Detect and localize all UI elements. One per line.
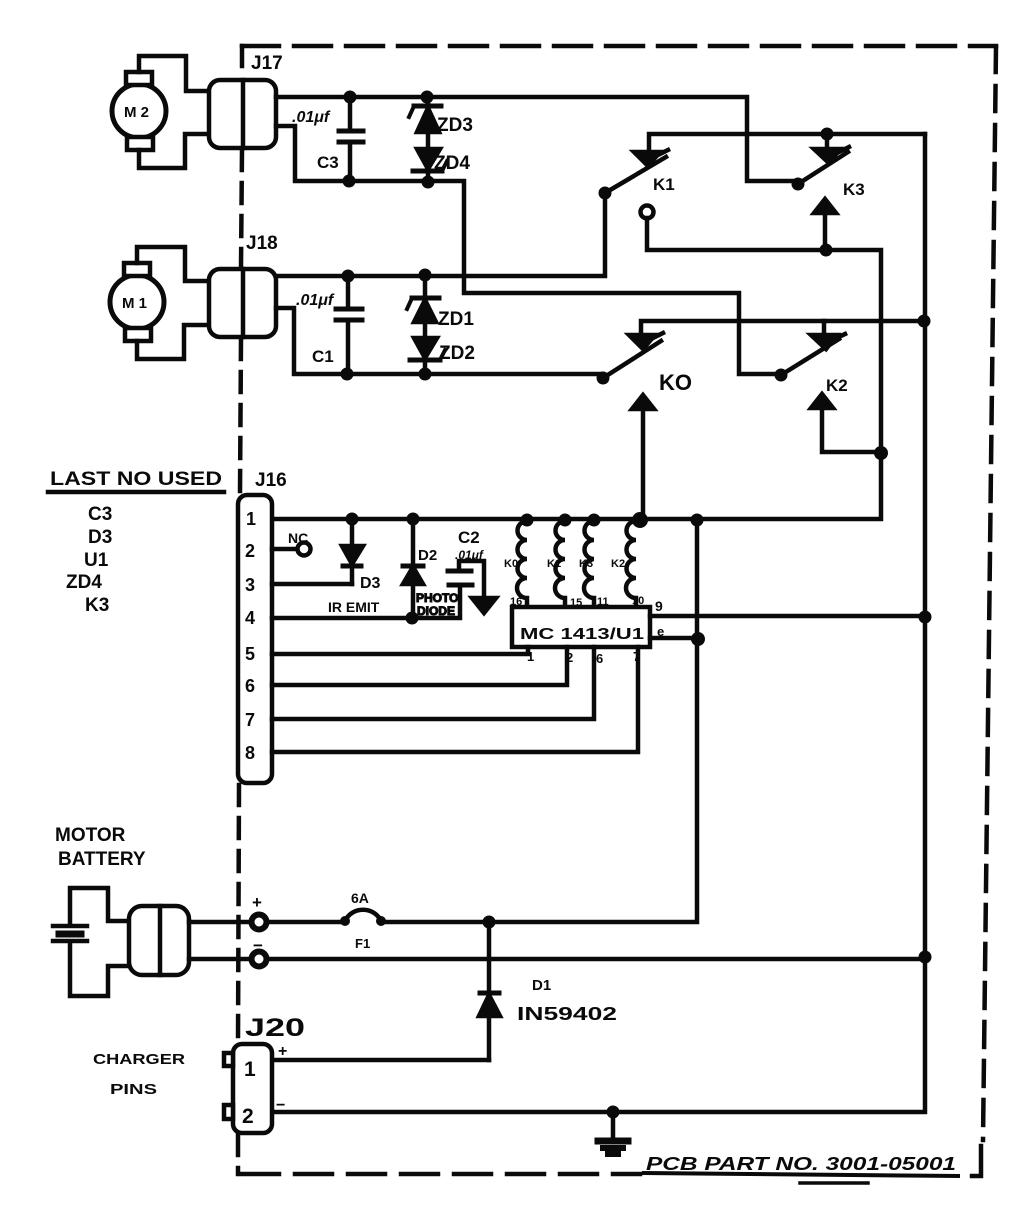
svg-text:e: e <box>657 624 664 639</box>
switch K0 NO arrow contact <box>632 395 654 409</box>
svg-text:.01μf: .01μf <box>296 292 335 309</box>
motor M2 bottom brush cap <box>127 137 153 150</box>
svg-text:J17: J17 <box>251 53 283 74</box>
wire J16 pin3 to D3 <box>272 582 352 587</box>
svg-text:5: 5 <box>245 644 255 664</box>
svg-text:2: 2 <box>566 650 573 665</box>
switch K1 NC circle contact <box>641 206 654 219</box>
svg-text:9: 9 <box>655 598 663 614</box>
wire connector to terminals <box>189 920 251 925</box>
motor M1 bottom brush cap <box>125 328 151 341</box>
wire K0/K2 common top <box>641 321 924 335</box>
ground arrow at C2 <box>472 598 496 613</box>
wire U1 pin8 to vertical <box>650 636 697 641</box>
PCB dashed border right <box>983 47 996 1140</box>
svg-text:1: 1 <box>244 1058 256 1081</box>
svg-text:11: 11 <box>597 596 609 608</box>
svg-text:DIODE: DIODE <box>417 604 455 618</box>
svg-text:MOTOR: MOTOR <box>55 825 126 846</box>
switch K0 fixed contact arrow <box>629 335 655 349</box>
diode D3 IR emitter <box>350 519 355 545</box>
IC U1 MC1413 <box>512 607 650 647</box>
wire M1 top to J18 <box>137 247 209 281</box>
svg-text:.01μf: .01μf <box>455 548 484 562</box>
connector J18 <box>209 269 276 337</box>
wire K0 NO to coil rail <box>641 409 646 518</box>
svg-text:U1: U1 <box>84 550 109 571</box>
svg-text:2: 2 <box>242 1105 254 1128</box>
switch K1 fixed contact arrow <box>634 152 660 166</box>
svg-text:3: 3 <box>245 575 255 595</box>
battery cell plates <box>53 924 87 929</box>
diode D1 <box>487 922 492 992</box>
wire coil rail vertical to battery plus rail <box>381 520 697 922</box>
plus terminal <box>252 915 267 930</box>
svg-text:KO: KO <box>659 370 692 395</box>
ground symbol <box>611 1112 616 1138</box>
capacitor C1 <box>346 276 351 307</box>
zener ZD1 <box>423 275 428 298</box>
junction dots <box>344 91 357 104</box>
svg-text:10: 10 <box>632 595 644 607</box>
svg-text:J18: J18 <box>246 233 278 254</box>
svg-text:IR EMIT: IR EMIT <box>328 599 380 615</box>
svg-text:8: 8 <box>245 743 255 763</box>
relay coil K2 <box>626 521 636 607</box>
svg-text:C3: C3 <box>88 504 112 525</box>
switch K3 NO arrow contact <box>814 199 836 213</box>
switch K3 fixed stub <box>825 134 830 148</box>
wire U1 pin9 to right vertical <box>650 614 925 619</box>
wire J17 pin B to ZD4/C3 bottom rail and down to K2 pole <box>276 126 778 374</box>
relay coil K1 <box>555 521 565 607</box>
wire main right vertical to bottom rail <box>272 134 925 1112</box>
svg-text:ZD3: ZD3 <box>437 115 473 136</box>
svg-text:D3: D3 <box>88 527 112 548</box>
connector J17 <box>209 80 276 148</box>
svg-text:K2: K2 <box>826 376 848 395</box>
connector J20 <box>233 1044 272 1133</box>
svg-text:C2: C2 <box>458 528 480 547</box>
NC open circle <box>298 543 311 556</box>
relay coil K3 <box>584 521 594 607</box>
wire M2 top to J17 <box>139 56 209 91</box>
wire plus terminal to fuse <box>267 920 345 925</box>
svg-text:+: + <box>278 1043 287 1060</box>
wire K1 NC to K3 NO, down right side to coil rail <box>272 218 881 519</box>
svg-text:K0: K0 <box>504 558 518 570</box>
fuse F1 <box>345 910 381 921</box>
wire minus terminal rail <box>267 957 925 962</box>
capacitor C3 <box>348 97 353 129</box>
wire battery minus to connector <box>70 943 129 996</box>
svg-text:J20: J20 <box>245 1014 305 1042</box>
wire J20 pin1 to D1 <box>272 1058 489 1063</box>
PCB dashed border bottom-right corner <box>972 1146 981 1176</box>
svg-text:−: − <box>253 936 263 955</box>
svg-text:ZD1: ZD1 <box>438 309 474 330</box>
wire J18 pin B rail to K0 pole <box>276 308 600 374</box>
svg-text:F1: F1 <box>355 936 370 951</box>
svg-text:MC 1413/U1: MC 1413/U1 <box>520 626 644 643</box>
switch K2 arm <box>781 339 839 375</box>
svg-text:D3: D3 <box>360 575 381 592</box>
svg-text:C1: C1 <box>312 347 334 366</box>
zener ZD4 <box>417 149 440 169</box>
wire M2 bottom to J17 <box>139 134 209 168</box>
switch K2 NO arrow contact <box>811 394 833 408</box>
svg-text:LAST NO USED: LAST NO USED <box>50 469 222 490</box>
wire K1/K3 common top <box>649 134 925 152</box>
switch K2 fixed contact arrow <box>811 335 837 349</box>
svg-text:2: 2 <box>245 541 255 561</box>
switch K2 fixed stub <box>822 321 827 334</box>
svg-text:PCB PART NO. 3001-05001: PCB PART NO. 3001-05001 <box>646 1154 956 1174</box>
svg-text:1: 1 <box>527 649 534 664</box>
svg-text:M 1: M 1 <box>122 295 147 312</box>
svg-text:K3: K3 <box>843 180 865 199</box>
motor M1 top brush cap <box>124 263 150 276</box>
svg-text:J16: J16 <box>255 470 287 491</box>
wire J16 pin4 to D2 and C2 <box>272 588 460 618</box>
svg-text:K1: K1 <box>547 558 561 570</box>
svg-text:.01μf: .01μf <box>292 109 331 126</box>
svg-text:7: 7 <box>245 710 255 730</box>
svg-text:PHOTO: PHOTO <box>416 591 458 605</box>
svg-text:−: − <box>276 1097 285 1114</box>
wire M1 bottom to J18 <box>137 325 209 359</box>
photo diode D2 <box>411 519 416 565</box>
svg-text:6: 6 <box>596 651 603 666</box>
svg-text:D1: D1 <box>532 977 551 994</box>
connector J16 <box>238 495 272 783</box>
svg-text:M 2: M 2 <box>124 104 149 121</box>
svg-text:4: 4 <box>245 608 255 628</box>
svg-text:PINS: PINS <box>110 1081 157 1098</box>
underline of LAST NO USED <box>48 490 224 495</box>
svg-text:K3: K3 <box>85 595 109 616</box>
motor M2 top brush cap <box>126 72 152 85</box>
zener ZD3 <box>426 97 431 106</box>
switch K3 fixed contact arrow <box>814 149 840 163</box>
svg-text:BATTERY: BATTERY <box>58 849 146 870</box>
svg-text:6A: 6A <box>351 890 369 906</box>
battery connector <box>129 906 189 975</box>
svg-text:ZD4: ZD4 <box>66 572 102 593</box>
wire J16 pin6 to U1 pin2 <box>272 647 567 685</box>
wire J16 pin7 to U1 pin6 <box>272 647 594 719</box>
svg-text:NC: NC <box>288 530 308 546</box>
PCB dashed border left segments <box>240 46 245 78</box>
svg-text:C3: C3 <box>317 153 339 172</box>
svg-text:1: 1 <box>246 509 256 529</box>
minus terminal <box>252 952 267 967</box>
svg-text:+: + <box>252 893 262 912</box>
motor M2 body <box>112 84 166 138</box>
wire battery plus to connector <box>70 888 129 924</box>
wire J16 pin8 to U1 pin7 <box>272 647 638 752</box>
switch K3 arm <box>798 152 848 184</box>
wire J16 pin5 to U1 pin1 <box>272 647 528 654</box>
svg-text:ZD4: ZD4 <box>434 153 470 174</box>
zener ZD2 <box>414 338 437 358</box>
svg-text:D2: D2 <box>418 547 437 564</box>
PCB part no underline <box>644 1173 958 1176</box>
capacitor C2 <box>448 569 471 574</box>
relay coil K0 <box>517 521 527 607</box>
switch K1 arm <box>605 157 666 193</box>
svg-text:K2: K2 <box>611 558 625 570</box>
svg-text:IN59402: IN59402 <box>517 1004 617 1024</box>
PCB dashed border bottom <box>242 1172 640 1177</box>
wire J16 pin2 to NC <box>272 547 297 552</box>
wire J18 pin A rail to K1 pole <box>276 196 605 276</box>
wire K2 NO to right vertical <box>822 408 881 452</box>
switch K0 arm <box>603 341 661 378</box>
motor M1 body <box>110 275 164 329</box>
wire J17 pin A to K3 pole <box>276 97 795 181</box>
PCB dashed border top <box>242 44 996 49</box>
svg-text:ZD2: ZD2 <box>439 343 475 364</box>
svg-text:K1: K1 <box>653 175 675 194</box>
svg-text:6: 6 <box>245 676 255 696</box>
svg-text:16: 16 <box>510 596 522 608</box>
svg-text:15: 15 <box>570 597 582 609</box>
svg-text:K3: K3 <box>579 558 593 570</box>
svg-text:7: 7 <box>633 649 640 664</box>
svg-text:CHARGER: CHARGER <box>93 1051 185 1068</box>
